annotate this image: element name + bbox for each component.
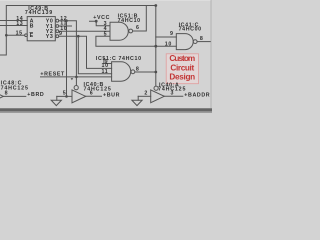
svg-text:Circuit: Circuit xyxy=(170,63,194,72)
svg-text:5: 5 xyxy=(104,31,108,37)
svg-text:+BRD: +BRD xyxy=(27,92,44,98)
svg-text:Y3: Y3 xyxy=(46,34,54,40)
svg-text:10: 10 xyxy=(165,41,172,47)
svg-text:8: 8 xyxy=(136,67,140,73)
svg-text:9: 9 xyxy=(59,31,63,37)
svg-text:E: E xyxy=(30,33,34,39)
svg-text:8: 8 xyxy=(200,36,204,42)
svg-text:+BADDR: +BADDR xyxy=(184,92,210,98)
svg-text:5: 5 xyxy=(63,91,67,97)
svg-text:11: 11 xyxy=(102,69,109,75)
svg-text:IC51:C 74HC10: IC51:C 74HC10 xyxy=(96,56,142,62)
svg-text:8: 8 xyxy=(5,90,9,96)
svg-text:B: B xyxy=(30,23,34,29)
svg-text:Custom: Custom xyxy=(169,54,195,63)
svg-text:74HC125: 74HC125 xyxy=(158,87,186,93)
svg-text:+BUR: +BUR xyxy=(103,92,120,98)
svg-text:Design: Design xyxy=(169,73,195,82)
svg-text:74HC125: 74HC125 xyxy=(84,86,112,92)
svg-text:+VCC: +VCC xyxy=(93,15,110,21)
svg-text:2: 2 xyxy=(144,91,148,97)
svg-text:6: 6 xyxy=(90,91,94,97)
svg-text:74HC10: 74HC10 xyxy=(118,18,141,24)
svg-text:9: 9 xyxy=(170,31,174,37)
svg-text:6: 6 xyxy=(136,25,140,31)
svg-text:+RESET: +RESET xyxy=(40,71,65,77)
svg-text:74HC139: 74HC139 xyxy=(25,10,53,16)
svg-text:15: 15 xyxy=(16,30,23,36)
svg-text:74HC00: 74HC00 xyxy=(179,27,202,33)
svg-text:13: 13 xyxy=(16,21,23,27)
